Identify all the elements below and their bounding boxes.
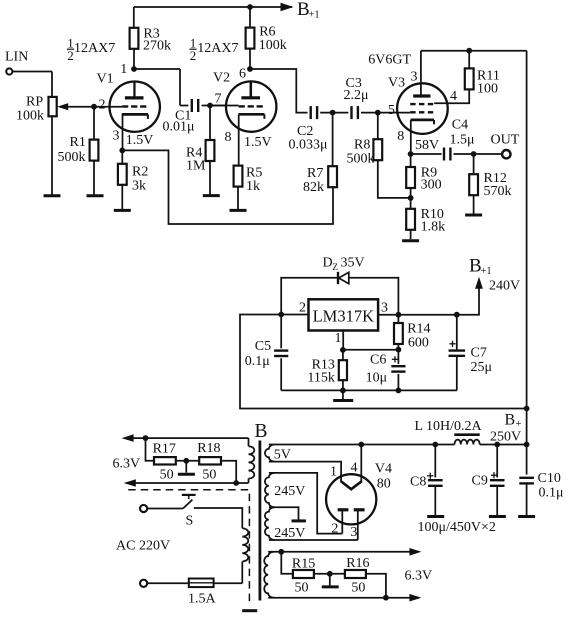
svg-text:LM317K: LM317K: [313, 307, 375, 326]
svg-text:50: 50: [160, 468, 174, 483]
svg-text:2: 2: [190, 48, 197, 63]
svg-text:D: D: [323, 256, 333, 271]
svg-text:R1: R1: [70, 135, 86, 150]
svg-text:8: 8: [397, 129, 404, 144]
svg-text:570k: 570k: [484, 184, 512, 199]
svg-text:R8: R8: [354, 138, 370, 153]
svg-text:5V: 5V: [274, 448, 291, 463]
svg-text:1.5A: 1.5A: [188, 592, 217, 607]
svg-text:3k: 3k: [132, 179, 146, 194]
svg-text:C7: C7: [471, 346, 487, 361]
svg-text:35V: 35V: [341, 256, 365, 271]
svg-text:245V: 245V: [274, 526, 305, 541]
svg-text:12AX7: 12AX7: [197, 41, 238, 56]
svg-text:3: 3: [411, 70, 418, 85]
svg-text:1.5V: 1.5V: [126, 133, 154, 148]
svg-text:25μ: 25μ: [471, 360, 493, 375]
svg-text:1.5V: 1.5V: [244, 135, 272, 150]
svg-text:+1: +1: [309, 10, 320, 21]
svg-text:0.01μ: 0.01μ: [163, 120, 195, 135]
svg-text:58V: 58V: [415, 138, 439, 153]
svg-text:0.1μ: 0.1μ: [245, 354, 270, 369]
svg-text:500k: 500k: [58, 150, 86, 165]
svg-text:4: 4: [450, 89, 457, 104]
svg-text:100μ/450V×2: 100μ/450V×2: [418, 520, 496, 535]
svg-text:100k: 100k: [259, 38, 287, 53]
svg-text:R18: R18: [197, 441, 220, 456]
svg-text:10μ: 10μ: [366, 370, 388, 385]
svg-text:500k: 500k: [347, 152, 375, 167]
svg-text:R7: R7: [307, 166, 323, 181]
svg-text:1: 1: [335, 331, 342, 346]
svg-text:C9: C9: [472, 474, 488, 489]
svg-text:2: 2: [99, 98, 106, 113]
svg-text:0.1μ: 0.1μ: [539, 486, 564, 501]
svg-text:V3: V3: [388, 76, 405, 91]
svg-text:LIN: LIN: [5, 50, 28, 65]
svg-text:1: 1: [330, 465, 337, 480]
svg-text:1: 1: [120, 62, 127, 77]
svg-text:1M: 1M: [186, 159, 206, 174]
svg-text:6.3V: 6.3V: [405, 569, 433, 584]
svg-text:C8: C8: [410, 475, 426, 490]
svg-text:+1: +1: [481, 266, 492, 277]
svg-text:3: 3: [113, 129, 120, 144]
svg-text:80: 80: [377, 477, 391, 492]
svg-text:6.3V: 6.3V: [113, 457, 141, 472]
svg-text:12AX7: 12AX7: [74, 41, 115, 56]
svg-text:4: 4: [351, 461, 358, 476]
svg-text:R17: R17: [153, 441, 176, 456]
svg-text:270k: 270k: [143, 39, 171, 54]
svg-text:C4: C4: [452, 118, 468, 133]
svg-text:3: 3: [381, 301, 388, 316]
svg-text:1.8k: 1.8k: [421, 220, 446, 235]
svg-text:1.5μ: 1.5μ: [450, 133, 475, 148]
svg-text:C10: C10: [538, 471, 561, 486]
svg-text:8: 8: [225, 130, 232, 145]
svg-text:R15: R15: [292, 557, 315, 572]
svg-text:6: 6: [239, 67, 246, 82]
svg-text:R16: R16: [346, 556, 369, 571]
svg-text:S: S: [186, 514, 194, 529]
svg-text:OUT: OUT: [491, 133, 520, 148]
svg-text:82k: 82k: [303, 180, 324, 195]
svg-text:50: 50: [295, 580, 309, 595]
svg-text:AC 220V: AC 220V: [116, 539, 170, 554]
svg-text:2: 2: [299, 301, 306, 316]
svg-text:2: 2: [67, 48, 74, 63]
svg-text:R2: R2: [132, 165, 148, 180]
svg-text:100: 100: [477, 82, 498, 97]
svg-text:6V6GT: 6V6GT: [368, 53, 411, 68]
svg-text:50: 50: [351, 580, 365, 595]
svg-text:600: 600: [408, 335, 429, 350]
svg-text:V1: V1: [97, 72, 114, 87]
svg-text:B: B: [255, 421, 268, 442]
svg-text:100k: 100k: [16, 109, 44, 124]
svg-text:Z: Z: [332, 263, 338, 273]
svg-text:7: 7: [215, 92, 222, 107]
svg-text:3: 3: [350, 525, 357, 540]
svg-text:2: 2: [331, 522, 338, 537]
svg-text:0.033μ: 0.033μ: [289, 138, 328, 153]
svg-text:2.2μ: 2.2μ: [344, 88, 369, 103]
svg-text:RP: RP: [26, 95, 43, 110]
svg-text:B: B: [505, 412, 516, 429]
svg-text:1k: 1k: [246, 179, 260, 194]
svg-text:115k: 115k: [307, 370, 334, 385]
svg-text:240V: 240V: [489, 279, 520, 294]
svg-text:245V: 245V: [274, 484, 305, 499]
svg-text:+: +: [516, 419, 522, 430]
svg-text:L 10H/0.2A: L 10H/0.2A: [415, 419, 483, 434]
svg-text:V4: V4: [375, 462, 392, 477]
svg-text:V2: V2: [213, 71, 230, 86]
svg-text:5: 5: [388, 103, 395, 118]
svg-text:300: 300: [421, 178, 442, 193]
svg-text:250V: 250V: [490, 430, 521, 445]
svg-text:50: 50: [202, 468, 216, 483]
svg-text:C6: C6: [370, 353, 386, 368]
svg-text:C5: C5: [255, 339, 271, 354]
